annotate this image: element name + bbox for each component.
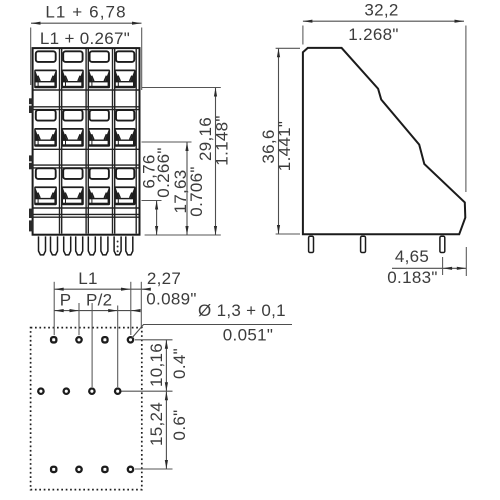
- column divider 1: [60, 49, 62, 234]
- svg-text:32,2: 32,2: [364, 1, 398, 20]
- wire clamp row2 col4: [114, 128, 135, 147]
- solder pin 5: [88, 236, 95, 255]
- hole rows: [38, 337, 133, 472]
- horizontal line below clamp row 1: [33, 89, 139, 91]
- lever row2 col3: [90, 110, 109, 121]
- hole r1c4: [128, 337, 133, 342]
- hole diameter callout: [132, 301, 293, 345]
- extension lines (bottom view): [54, 282, 141, 387]
- dimension P: [54, 291, 140, 313]
- svg-text:2,27: 2,27: [147, 269, 181, 288]
- lever row1 col1: [36, 51, 56, 62]
- wire clamp row2 col1: [34, 128, 57, 147]
- dimension 17,63 / 0.706": [171, 142, 206, 235]
- svg-text:1.441": 1.441": [275, 121, 294, 171]
- dimension 15,24 / 0.6": [135, 391, 189, 469]
- left mounting tab 2: [29, 155, 33, 169]
- dimension 10,16 / 0.4": [122, 340, 190, 391]
- levers and clamps grid: [34, 51, 135, 205]
- hole r2c1: [38, 389, 43, 394]
- solder pins row (8 pins): [39, 236, 133, 255]
- dimension P/2: [86, 291, 141, 313]
- hole r2c2: [64, 389, 69, 394]
- hole r1c1: [51, 337, 56, 342]
- hole r2c4: [115, 389, 120, 394]
- svg-text:L1: L1: [78, 269, 98, 288]
- lever row1 col3: [90, 51, 109, 62]
- solder pin 7: [114, 236, 121, 255]
- wire clamp row1 col1: [34, 70, 57, 89]
- wire clamp row1 col2: [62, 70, 84, 89]
- svg-text:L1 + 6,78: L1 + 6,78: [45, 3, 126, 22]
- bottom band line: [33, 214, 139, 217]
- solder pin 3: [64, 236, 71, 255]
- lever row2 col4: [116, 110, 134, 121]
- solder pin 4: [76, 236, 83, 255]
- svg-text:1.268": 1.268": [348, 25, 398, 44]
- wire clamp row3 col4: [114, 186, 135, 205]
- level separator band 1: [33, 107, 139, 110]
- svg-text:0.051": 0.051": [223, 326, 273, 345]
- hole r3c1: [51, 467, 56, 472]
- side pin 3: [440, 236, 445, 252]
- horizontal line below clamp row 3: [33, 207, 139, 209]
- solder pin 1: [39, 236, 46, 255]
- side pin 1: [309, 236, 314, 252]
- lever row2 col1: [36, 110, 56, 121]
- lever row2 col2: [63, 110, 82, 121]
- svg-text:0.089": 0.089": [146, 290, 196, 309]
- wire clamp row3 col1: [34, 186, 57, 205]
- svg-text:0.706": 0.706": [187, 166, 206, 216]
- dimension L1 (hole1 to hole4): [54, 269, 150, 291]
- housing profile: [303, 48, 465, 234]
- lever row3 col1: [36, 168, 56, 179]
- hole r3c3: [102, 467, 107, 472]
- svg-text:P: P: [60, 291, 72, 310]
- horizontal line below clamp row 2: [33, 148, 139, 150]
- wire clamp row1 col3: [88, 70, 110, 89]
- svg-text:Ø 1,3 + 0,1: Ø 1,3 + 0,1: [198, 301, 286, 320]
- column divider 3: [113, 49, 115, 234]
- left mounting tab 1: [29, 98, 33, 113]
- level separator band 2: [33, 165, 139, 168]
- svg-text:4,65: 4,65: [395, 247, 429, 266]
- hole r3c2: [76, 467, 81, 472]
- solder pin 6: [101, 236, 108, 255]
- solder pin 2: [51, 236, 58, 255]
- svg-text:0.183": 0.183": [387, 268, 437, 287]
- dimension 2,27 / 0.089": [141, 269, 196, 309]
- hidden-line dots on pin 7: [117, 241, 119, 253]
- svg-text:P/2: P/2: [86, 291, 112, 310]
- body outline: [33, 48, 140, 235]
- lever row1 col2: [63, 51, 82, 62]
- side pin 2: [361, 236, 366, 252]
- svg-text:10,16: 10,16: [147, 343, 166, 387]
- wire clamp row1 col4: [114, 70, 135, 89]
- lever row3 col3: [90, 168, 109, 179]
- dimension line L1+6,78: [31, 22, 142, 90]
- lever row3 col4: [116, 168, 134, 179]
- lever row1 col4: [116, 51, 134, 62]
- wire clamp row2 col2: [62, 128, 84, 147]
- svg-text:0.4": 0.4": [170, 348, 189, 379]
- column divider 2: [86, 49, 88, 234]
- footprint outline (dotted): [31, 328, 142, 490]
- hole r2c3: [89, 389, 94, 394]
- dimension 4,65 / 0.183": [387, 247, 466, 287]
- left mounting tab 3: [29, 209, 33, 232]
- hole r3c4: [128, 467, 133, 472]
- hole r1c2: [76, 337, 81, 342]
- wire clamp row3 col2: [62, 186, 84, 205]
- svg-text:0.6": 0.6": [170, 410, 189, 441]
- wire clamp row3 col3: [88, 186, 110, 205]
- dimension 36,6 / 1.441": [259, 48, 300, 234]
- solder pin 8: [126, 236, 133, 255]
- svg-text:15,24: 15,24: [147, 402, 166, 446]
- svg-text:1.148": 1.148": [212, 115, 231, 165]
- dimension line 32,2: [303, 20, 466, 192]
- dimension 29,16 / 1.148": [196, 88, 231, 236]
- dimension 6,76 / 0.266": [140, 147, 173, 235]
- svg-text:L1 + 0.267": L1 + 0.267": [40, 29, 130, 48]
- lever row3 col2: [63, 168, 82, 179]
- wire clamp row2 col3: [88, 128, 110, 147]
- hole r1c3: [102, 337, 107, 342]
- right-side extension lines: [142, 88, 221, 236]
